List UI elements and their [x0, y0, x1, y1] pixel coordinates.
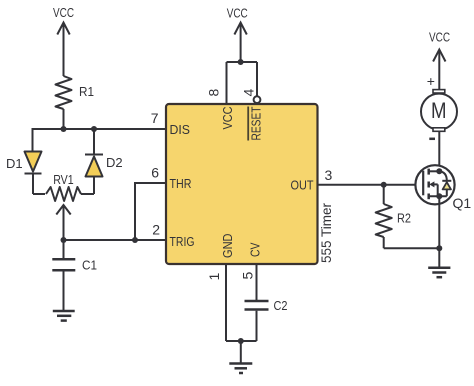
node OUT/R2 junction	[381, 182, 387, 188]
wire THR branch	[135, 183, 166, 240]
node drain junction	[436, 168, 442, 174]
svg-text:TRIG: TRIG	[170, 234, 195, 249]
node D2/DIS junction	[91, 126, 97, 132]
svg-text:OUT: OUT	[291, 178, 314, 193]
wire pin 1 down	[225, 264, 227, 341]
svg-text:R1: R1	[79, 84, 94, 99]
svg-text:D1: D1	[6, 156, 23, 171]
svg-text:C2: C2	[274, 298, 288, 313]
svg-text:7: 7	[151, 110, 159, 126]
svg-text:6: 6	[151, 165, 159, 181]
ground right	[428, 268, 450, 278]
RV1 wiper arrow	[56, 205, 70, 240]
svg-text:VCC: VCC	[53, 5, 74, 20]
svg-text:RV1: RV1	[53, 172, 73, 187]
wire pin 5 to C2	[256, 264, 258, 300]
svg-text:D2: D2	[106, 155, 123, 170]
svg-text:8: 8	[206, 89, 222, 97]
svg-text:THR: THR	[170, 176, 192, 191]
svg-text:GND: GND	[220, 234, 235, 259]
wire TRIG horizontal rail	[64, 239, 167, 241]
node R1/DIS junction	[61, 126, 67, 132]
svg-text:CV: CV	[248, 242, 263, 257]
node source junction	[436, 193, 442, 199]
potentiometer RV1	[33, 187, 94, 201]
power flag VCC left	[57, 23, 69, 77]
wire top horizontal	[227, 61, 258, 63]
wire R2 bottom to source	[384, 247, 440, 249]
power flag VCC top	[234, 23, 246, 63]
capacitor C2	[245, 301, 269, 341]
node top VCC junction	[238, 59, 244, 65]
op-amp U1 555 timer body	[166, 104, 318, 264]
wire motor to drain	[438, 131, 440, 171]
wire R1 bottom to DIS rail	[63, 109, 65, 129]
svg-text:4: 4	[241, 89, 257, 97]
diode D2	[85, 129, 103, 194]
svg-text:5: 5	[240, 272, 256, 280]
svg-text:VCC: VCC	[227, 5, 248, 20]
svg-text:R2: R2	[397, 211, 411, 226]
svg-text:RESET: RESET	[249, 106, 264, 140]
power flag VCC right	[433, 50, 445, 90]
node wiper/TRIG junction	[61, 237, 67, 243]
svg-text:3: 3	[325, 167, 333, 183]
motor M1	[421, 90, 457, 132]
svg-text:555 Timer: 555 Timer	[318, 203, 334, 263]
resistor R1	[56, 76, 72, 109]
svg-text:2: 2	[152, 222, 160, 238]
svg-text:C1: C1	[82, 258, 97, 273]
svg-text:VCC: VCC	[429, 29, 450, 44]
svg-text:1: 1	[206, 273, 222, 281]
RESET bubble pin 4	[254, 96, 261, 103]
node source/R2 junction	[436, 245, 442, 251]
ground left	[53, 311, 75, 321]
RESET overline	[247, 107, 249, 141]
svg-text:Q1: Q1	[453, 195, 472, 211]
node THR/TRIG junction	[132, 237, 138, 243]
wire OUT to gate	[318, 184, 424, 186]
wire ground stem	[240, 341, 242, 364]
svg-text:VCC: VCC	[220, 107, 235, 130]
wire bottom horizontal	[226, 340, 257, 342]
motor M1 minus mark	[429, 138, 435, 141]
wire source to ground	[438, 196, 440, 268]
diode D1	[25, 128, 42, 194]
ground bottom middle	[229, 364, 252, 374]
wire DIS horizontal rail	[33, 128, 167, 130]
svg-text:+: +	[427, 73, 435, 89]
svg-text:M: M	[431, 98, 447, 123]
transistor Q1	[415, 165, 454, 204]
svg-text:DIS: DIS	[170, 122, 191, 137]
node bottom ground junction	[238, 338, 244, 344]
capacitor C1	[52, 240, 75, 311]
wire pin 8 to VCC	[226, 62, 228, 104]
resistor R2	[376, 185, 392, 249]
wire pin 4 to VCC	[256, 62, 258, 96]
Q1 body diode	[439, 171, 451, 196]
